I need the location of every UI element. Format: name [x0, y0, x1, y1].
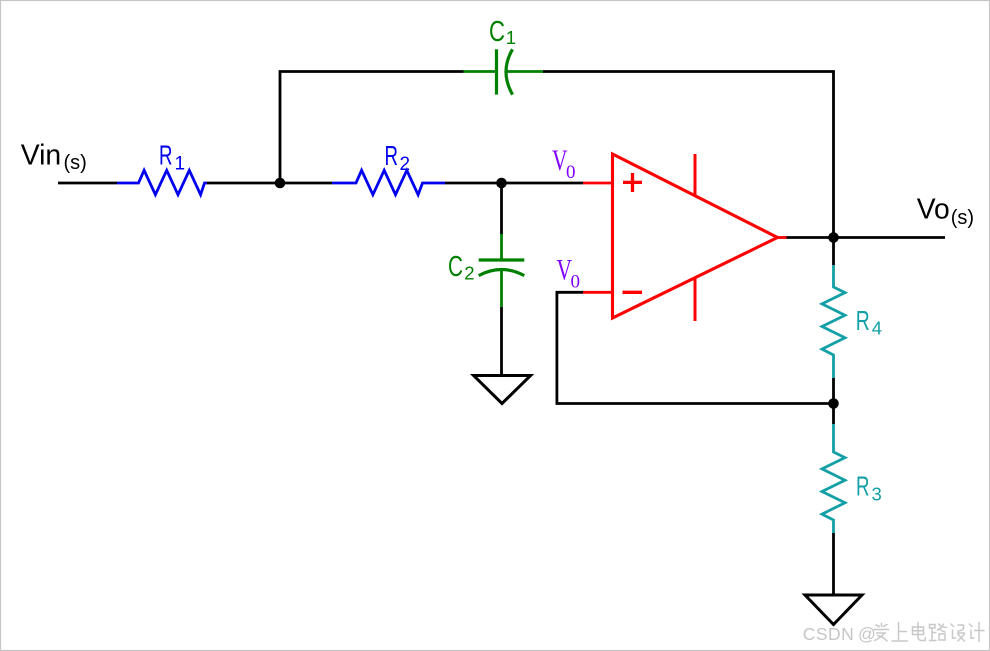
svg-text:0: 0: [566, 162, 576, 183]
wire R4 to node C: [832, 378, 835, 404]
wire input to R1: [58, 182, 117, 185]
wire output node to R4: [832, 238, 835, 266]
ground under C2: [474, 376, 531, 404]
svg-text:(s): (s): [951, 207, 974, 229]
wire node B down to C2: [500, 183, 503, 234]
watermark chinese glyphs: [874, 623, 984, 642]
svg-text:Vin: Vin: [21, 140, 62, 172]
svg-text:CSDN: CSDN: [803, 624, 855, 644]
node V0 label plus input: [552, 145, 576, 183]
resistor R3: [822, 424, 845, 533]
node B junction dot: [496, 178, 507, 189]
node output junction dot: [828, 232, 839, 243]
svg-text:R: R: [856, 305, 870, 336]
node V0 label minus input: [557, 254, 581, 292]
node C junction dot: [828, 398, 839, 409]
svg-text:C: C: [448, 251, 463, 283]
svg-text:1: 1: [506, 27, 516, 48]
node A junction dot: [275, 178, 286, 189]
node Vo label: [917, 194, 974, 230]
svg-text:@: @: [858, 624, 876, 644]
wire C1 to output node: [543, 72, 834, 238]
svg-text:4: 4: [872, 317, 882, 338]
resistor R4: [822, 265, 845, 378]
node Vin label: [21, 140, 87, 174]
resistor R1: [117, 170, 207, 194]
wire R3 to ground: [832, 533, 835, 595]
svg-text:Vo: Vo: [917, 194, 950, 226]
svg-text:R: R: [385, 140, 399, 171]
wire R2 to op-amp plus input: [445, 182, 583, 185]
svg-text:2: 2: [400, 154, 411, 175]
wire node C to R3: [832, 404, 835, 425]
ground under R3: [805, 595, 862, 625]
svg-text:2: 2: [464, 262, 474, 283]
wire R1 to R2 through node A: [207, 182, 332, 185]
resistor R2: [332, 170, 445, 194]
op-amp U1: [583, 154, 787, 321]
capacitor C2: [448, 234, 524, 307]
wire feedback from node C to minus input: [557, 292, 834, 403]
wire op-amp output to Vo: [787, 236, 946, 239]
watermark CSDN text: [803, 624, 876, 644]
svg-text:R: R: [856, 471, 870, 502]
svg-text:(s): (s): [64, 152, 87, 174]
svg-text:1: 1: [175, 153, 186, 174]
svg-text:0: 0: [571, 272, 581, 293]
capacitor C1: [464, 16, 544, 95]
wire node A up to top rail: [280, 72, 464, 184]
svg-text:R: R: [159, 140, 173, 171]
wire C2 to ground: [500, 307, 503, 376]
svg-text:C: C: [489, 16, 505, 48]
svg-text:3: 3: [872, 484, 882, 505]
